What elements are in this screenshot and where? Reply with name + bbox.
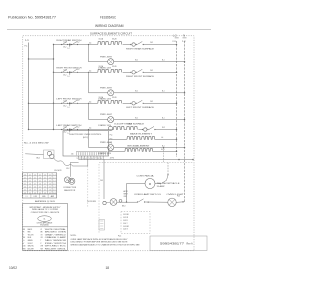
svg-text:W-2: W-2 — [150, 70, 153, 72]
svg-text:2.1: 2.1 — [24, 189, 26, 191]
svg-text:J1-6 G: J1-6 G — [123, 229, 129, 231]
svg-text:2.1: 2.1 — [53, 189, 55, 191]
svg-text:N-1: N-1 — [162, 117, 165, 119]
svg-text:Y: Y — [23, 234, 24, 236]
svg-text:1.4: 1.4 — [53, 180, 55, 182]
svg-text:BAKE ELEMENT: BAKE ELEMENT — [130, 132, 153, 135]
svg-text:N-1: N-1 — [162, 60, 165, 62]
svg-text:1.4: 1.4 — [24, 180, 26, 182]
svg-text:CONV FAN 4A: CONV FAN 4A — [137, 175, 155, 178]
svg-text:WR: WR — [41, 246, 43, 248]
svg-text:DOOR SW: DOOR SW — [87, 201, 96, 203]
svg-text:1.4: 1.4 — [44, 174, 46, 176]
svg-text:18: 18 — [106, 266, 110, 270]
svg-text:2.1: 2.1 — [24, 183, 26, 185]
svg-text:T: T — [41, 240, 42, 242]
svg-text:BK: BK — [23, 229, 25, 231]
svg-text:P-12: P-12 — [182, 41, 186, 43]
svg-text:2.1: 2.1 — [44, 183, 46, 185]
svg-text:J2 P-3: J2 P-3 — [110, 158, 115, 160]
svg-text:W-2: W-2 — [150, 42, 153, 44]
svg-text:(EOC): (EOC) — [83, 137, 88, 139]
svg-text:2.1: 2.1 — [34, 177, 36, 179]
svg-text:ELECTRONIC OVEN CONTROL: ELECTRONIC OVEN CONTROL — [70, 134, 102, 136]
svg-text:1.4: 1.4 — [34, 186, 36, 188]
svg-text:OFF: OFF — [124, 196, 127, 198]
svg-text:LEFT FRONT SURFACE: LEFT FRONT SURFACE — [126, 106, 155, 109]
svg-text:W-2: W-2 — [150, 101, 153, 103]
svg-text:P-14: P-14 — [118, 236, 121, 238]
svg-text:2.1: 2.1 — [49, 186, 51, 188]
svg-text:1-2: 1-2 — [68, 76, 70, 78]
svg-text:CONDUCTORS ONLY - SEE NOTE: CONDUCTORS ONLY - SEE NOTE — [31, 212, 60, 214]
svg-text:1.4: 1.4 — [29, 177, 31, 179]
svg-text:1O-2: 1O-2 — [63, 75, 67, 77]
svg-text:10/02: 10/02 — [9, 266, 17, 270]
svg-text:BROIL ELEMENT: BROIL ELEMENT — [128, 145, 151, 147]
svg-text:2.1: 2.1 — [53, 177, 55, 179]
svg-text:WIRING DIAGRAM: WIRING DIAGRAM — [95, 24, 124, 28]
svg-text:DISCONNECT POWER BEFORE SERVIC: DISCONNECT POWER BEFORE SERVICING UNIT. … — [71, 242, 128, 244]
svg-text:2.1: 2.1 — [29, 186, 31, 188]
svg-text:UL: UL — [43, 219, 45, 221]
svg-text:M: M — [149, 182, 151, 186]
svg-text:3O-2B: 3O-2B — [112, 97, 116, 99]
svg-text:1O-2: 1O-2 — [64, 127, 68, 129]
svg-text:1-2: 1-2 — [68, 48, 70, 50]
svg-text:YELLOW: YELLOW — [28, 234, 34, 236]
svg-text:1O-2: 1O-2 — [63, 132, 67, 134]
svg-text:SURFACE ELEMENTS CIRCUIT: SURFACE ELEMENTS CIRCUIT — [90, 32, 132, 36]
svg-text:P-6: P-6 — [110, 139, 113, 141]
svg-text:1.4: 1.4 — [34, 174, 36, 176]
svg-text:1.4: 1.4 — [24, 174, 26, 176]
svg-text:VIOLET: VIOLET — [28, 243, 33, 245]
svg-text:Rev A: Rev A — [187, 243, 194, 246]
svg-text:1.4: 1.4 — [39, 177, 41, 179]
svg-text:1O-2: 1O-2 — [63, 47, 67, 49]
svg-text:BK-3: BK-3 — [122, 205, 126, 207]
svg-text:BR: BR — [41, 232, 43, 234]
svg-text:2.1: 2.1 — [39, 174, 41, 176]
svg-text:1.4: 1.4 — [39, 183, 41, 185]
svg-text:1.4: 1.4 — [49, 189, 51, 191]
svg-text:J16: J16 — [71, 153, 74, 155]
svg-text:J1-5 BR: J1-5 BR — [123, 226, 130, 228]
svg-text:PWR LIGHT: PWR LIGHT — [100, 56, 113, 58]
svg-text:N-1: N-1 — [162, 91, 165, 93]
svg-text:5995438177: 5995438177 — [160, 242, 185, 246]
svg-text:L 1: L 1 — [25, 38, 29, 42]
svg-text:2.1: 2.1 — [34, 183, 36, 185]
svg-text:2.1: 2.1 — [49, 174, 51, 176]
svg-text:RIGHT FRONT SURFACE: RIGHT FRONT SURFACE — [126, 75, 155, 78]
svg-text:FAN MOTOR: FAN MOTOR — [64, 189, 76, 192]
svg-text:R: R — [23, 232, 24, 234]
svg-text:3-6: 3-6 — [89, 128, 91, 130]
svg-text:2.1: 2.1 — [49, 180, 51, 182]
svg-text:1.4: 1.4 — [53, 174, 55, 176]
svg-text:GN: GN — [23, 246, 25, 248]
svg-text:PWR LIGHT: PWR LIGHT — [100, 114, 113, 116]
svg-text:1.4: 1.4 — [24, 186, 26, 188]
svg-text:P-1: P-1 — [110, 143, 113, 145]
svg-text:1.4: 1.4 — [29, 183, 31, 185]
svg-text:1-2: 1-2 — [68, 107, 70, 109]
svg-text:FES365ASC: FES365ASC — [100, 16, 117, 20]
svg-text:1O-6 W-28: 1O-6 W-28 — [54, 170, 61, 172]
svg-text:3O-2B: 3O-2B — [112, 66, 116, 68]
svg-text:J1-2 W: J1-2 W — [123, 217, 129, 219]
svg-text:1 2 3 4 5 6 7 8 9: 1 2 3 4 5 6 7 8 9 — [76, 158, 103, 160]
svg-text:BLK-WHT: BLK-WHT — [28, 248, 34, 250]
svg-text:E23456: E23456 — [40, 225, 49, 227]
svg-text:P-1: P-1 — [25, 46, 28, 48]
svg-text:GY: GY — [41, 234, 43, 236]
svg-text:AMPERES @ 240V: AMPERES @ 240V — [35, 200, 56, 203]
svg-text:BLUE: BLUE — [28, 237, 32, 239]
svg-text:LEFT REAR SURFACE: LEFT REAR SURFACE — [119, 123, 145, 126]
svg-text:2.1: 2.1 — [39, 180, 41, 182]
svg-text:RED-WHT / BROIL: RED-WHT / BROIL — [45, 248, 66, 250]
svg-text:RED: RED — [28, 232, 31, 234]
svg-text:W-1: W-1 — [135, 60, 138, 62]
svg-text:N: N — [183, 34, 185, 38]
svg-text:OVEN LIGHT: OVEN LIGHT — [167, 194, 185, 196]
svg-text:2.1: 2.1 — [44, 189, 46, 191]
svg-text:BU: BU — [23, 237, 25, 239]
svg-text:3-6: 3-6 — [89, 43, 91, 45]
svg-text:P: P — [41, 243, 42, 245]
svg-text:NOTE:: NOTE: — [71, 235, 77, 237]
svg-text:3-6: 3-6 — [89, 70, 91, 72]
svg-text:GREEN: GREEN — [28, 240, 33, 242]
svg-text:1O-2: 1O-2 — [76, 126, 80, 128]
svg-text:1O-2: 1O-2 — [66, 168, 70, 170]
svg-text:1.4: 1.4 — [34, 180, 36, 182]
svg-text:V: V — [23, 243, 24, 245]
svg-text:2.1: 2.1 — [44, 177, 46, 179]
svg-text:OVEN LAMP SW 1O-5: OVEN LAMP SW 1O-5 — [134, 193, 161, 196]
svg-text:J1-1 BK: J1-1 BK — [123, 214, 130, 216]
svg-text:1.4: 1.4 — [29, 189, 31, 191]
svg-text:No. 4 J/16 BELOW: No. 4 J/16 BELOW — [24, 142, 49, 144]
svg-text:2.1: 2.1 — [34, 189, 36, 191]
svg-text:2.1: 2.1 — [29, 174, 31, 176]
svg-text:1O-2: 1O-2 — [64, 101, 68, 103]
svg-text:1.4: 1.4 — [44, 186, 46, 188]
svg-text:W-1: W-1 — [135, 91, 138, 93]
svg-text:P-11: P-11 — [173, 41, 176, 43]
svg-text:W-2: W-2 — [162, 127, 165, 129]
svg-text:Publication No. 5995438177: Publication No. 5995438177 — [8, 16, 56, 20]
svg-text:2.1: 2.1 — [24, 177, 26, 179]
svg-text:1.4: 1.4 — [53, 186, 55, 188]
svg-text:PWR LIGHT: PWR LIGHT — [100, 87, 113, 89]
svg-text:L 2: L 2 — [173, 34, 177, 38]
svg-text:1O-2: 1O-2 — [76, 69, 80, 71]
svg-text:W-1: W-1 — [135, 117, 138, 119]
svg-text:1O-2: 1O-2 — [64, 70, 68, 72]
svg-text:L-4: L-4 — [161, 137, 163, 139]
svg-text:W-5: W-5 — [100, 180, 103, 182]
svg-text:1.4: 1.4 — [44, 180, 46, 182]
svg-text:1O-2: 1O-2 — [64, 42, 68, 44]
svg-text:PINK / SWITCH: PINK / SWITCH — [45, 243, 66, 245]
svg-text:1O-2: 1O-2 — [76, 41, 80, 43]
svg-text:IMPORTANT - MINIMUM SUPPLY: IMPORTANT - MINIMUM SUPPLY — [30, 206, 62, 209]
svg-text:P-4: P-4 — [110, 135, 113, 137]
svg-text:2.1: 2.1 — [29, 180, 31, 182]
svg-text:G: G — [23, 240, 24, 242]
svg-text:P-13: P-13 — [177, 196, 180, 198]
svg-text:1.4: 1.4 — [49, 177, 51, 179]
svg-text:1O-2: 1O-2 — [76, 100, 80, 102]
svg-text:WHT-RED / EOC: WHT-RED / EOC — [45, 246, 66, 248]
svg-text:RIGHT REAR SURFACE: RIGHT REAR SURFACE — [126, 47, 155, 50]
svg-text:1.4: 1.4 — [39, 189, 41, 191]
svg-text:3O-2B: 3O-2B — [112, 38, 116, 40]
svg-text:W-11: W-11 — [161, 149, 165, 151]
svg-text:1O-2: 1O-2 — [63, 106, 67, 108]
svg-text:OR: OR — [41, 237, 43, 239]
svg-text:L1: L1 — [26, 196, 28, 198]
svg-text:2.1: 2.1 — [53, 183, 55, 185]
svg-text:SHUT: SHUT — [124, 193, 128, 195]
svg-text:2.1: 2.1 — [39, 186, 41, 188]
svg-text:L2/N: L2/N — [34, 196, 37, 198]
svg-text:1.4: 1.4 — [49, 183, 51, 185]
svg-text:3-6: 3-6 — [89, 101, 91, 103]
svg-text:BROWN / OVEN: BROWN / OVEN — [45, 232, 66, 234]
svg-text:BK-5: BK-5 — [37, 157, 41, 159]
svg-text:GRN-YEL: GRN-YEL — [28, 246, 34, 248]
